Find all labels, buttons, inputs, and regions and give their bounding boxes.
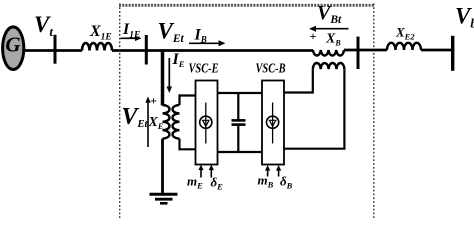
svg-text:X1E: X1E: [89, 23, 112, 43]
bus at V_Bt node: [357, 37, 360, 69]
arrow I_E: [167, 58, 173, 93]
svg-text:VEt: VEt: [122, 104, 149, 130]
ground: [150, 194, 178, 203]
arrow m_E: [198, 165, 203, 178]
bus V_Et: [145, 35, 148, 65]
UPFC dashed enclosure left edge: [119, 4, 121, 219]
VSC-B valve symbol: [267, 103, 279, 144]
wire: coil to ground: [161, 139, 164, 194]
svg-text:+: +: [150, 94, 157, 108]
svg-text:VSC-B: VSC-B: [256, 62, 286, 77]
wire: generator to bus Vt: [23, 49, 54, 52]
bus V_b: [451, 36, 454, 71]
dc top rail: [218, 92, 263, 94]
wire: secondary bottom lead to VSC-E: [180, 139, 196, 150]
V_Et voltage arrow: [145, 97, 150, 148]
wire: X_B to bus: [344, 49, 387, 52]
svg-text:XE: XE: [148, 115, 164, 131]
arrow I_B: [189, 40, 226, 46]
svg-text:VSC-E: VSC-E: [189, 62, 219, 77]
svg-text:Vb: Vb: [455, 4, 474, 31]
shunt drop wire from main line: [161, 51, 165, 106]
arrow delta_B: [276, 165, 281, 177]
dc capacitor: [232, 93, 246, 152]
arrow delta_E: [209, 165, 214, 178]
shunt transformer primary coil X_E: [163, 105, 170, 139]
wire: X1E to bus VEt: [112, 49, 146, 52]
VSC-E valve symbol: [200, 103, 212, 144]
svg-text:VEt: VEt: [158, 19, 185, 46]
svg-text:XE2: XE2: [395, 25, 415, 42]
inductor X_E2: [387, 43, 421, 50]
bus V_t: [54, 35, 57, 64]
wire: bus Vt to inductor X1E: [55, 49, 82, 52]
boost transformer secondary coil: [313, 63, 345, 69]
svg-text:δE: δE: [211, 175, 224, 192]
wire: bus VEt to series transformer: [146, 49, 313, 52]
arrow I_1E: [121, 36, 142, 42]
svg-text:G: G: [5, 33, 20, 57]
svg-text:+: +: [310, 29, 317, 43]
converter VSC-B box: [262, 81, 284, 165]
wire: X_E2 to bus V_b: [421, 49, 453, 52]
series coil X_B primary: [313, 50, 344, 55]
arrow V_Bt: [309, 26, 349, 32]
svg-text:δB: δB: [280, 174, 293, 191]
svg-text:IE: IE: [172, 51, 185, 69]
wire: VSC-B top lead to boost secondary: [284, 69, 313, 92]
converter VSC-E box: [196, 81, 218, 165]
UPFC dashed enclosure top edge: [119, 4, 374, 7]
svg-text:XB: XB: [325, 32, 341, 48]
svg-text:mB: mB: [258, 173, 274, 190]
wire: VSC-B bottom lead to boost secondary: [284, 69, 344, 148]
UPFC dashed enclosure right edge: [373, 4, 375, 219]
shunt transformer secondary coil: [173, 105, 180, 139]
dc bottom rail: [218, 151, 263, 153]
wire: secondary top lead to VSC-E: [180, 96, 196, 106]
svg-text:IB: IB: [194, 26, 207, 44]
arrow m_B: [265, 165, 270, 177]
inductor X_1E: [82, 43, 112, 51]
generator G: [3, 27, 24, 70]
svg-text:Vt: Vt: [34, 12, 53, 39]
